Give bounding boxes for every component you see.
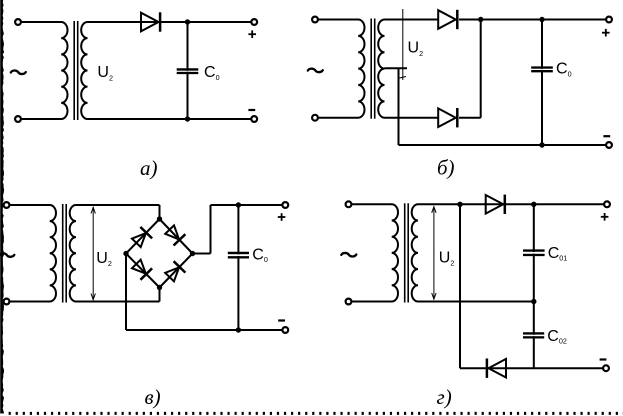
- circuit v: bridge diode VD4 (bottom-right): [164, 261, 186, 283]
- circuit a: wire secondary bottom to output -: [88, 118, 255, 120]
- T(b): core line 1: [370, 19, 372, 119]
- circuit v: node bridge right: [190, 251, 195, 256]
- T(g): primary top lead wire: [351, 203, 392, 205]
- T(b): primary top lead wire: [318, 19, 359, 21]
- T(b): input terminal top: [312, 17, 318, 23]
- T(a): input terminal bottom: [15, 116, 21, 122]
- T(a): AC source symbol ~: [11, 71, 26, 75]
- circuit b: capacitor gap mask: [531, 69, 554, 70]
- circuit g: capacitor C02: [523, 333, 544, 337]
- circuit b: center tap drop wire: [398, 68, 400, 145]
- circuit b: output terminal +: [606, 17, 612, 23]
- circuit g: capacitor C01 wire: [533, 204, 535, 301]
- circuit v: wire riser to bottom vertex: [159, 288, 161, 302]
- circuit g: output terminal +: [604, 201, 610, 207]
- circuit v: bridge diode VD1 (left-top): [130, 227, 152, 249]
- circuit g: left drop wire (node A to bottom rail): [459, 204, 461, 368]
- circuit a: node top (cap junction): [185, 19, 190, 24]
- circuit b: wire secondary bottom to diode VD2: [385, 117, 440, 119]
- circuit v: wire riser to + rail: [210, 205, 212, 254]
- circuit v: - rail wire: [126, 329, 285, 331]
- T(v): core line 2: [65, 204, 67, 303]
- circuit v: capacitor gap mask: [227, 254, 250, 256]
- circuit g: minus sign: [600, 358, 607, 360]
- T(v): primary winding: [50, 205, 56, 301]
- circuit a: output terminal -: [251, 116, 257, 122]
- T(b): secondary winding: [378, 20, 384, 118]
- circuit b: diode VD2: [438, 108, 456, 127]
- T(a): core line 1: [73, 21, 75, 120]
- circuit g: node A: [457, 202, 462, 207]
- circuit a: capacitor gap mask: [176, 70, 200, 73]
- circuit a: diode VD: [141, 13, 159, 32]
- T(a): primary bottom lead wire: [21, 118, 62, 120]
- T(b): AC source symbol ~: [308, 69, 323, 73]
- circuit g: top rail wire node A to +: [460, 203, 607, 205]
- circuit b: wire VD1 to + rail: [459, 19, 609, 21]
- circuit a: top rail wire: [88, 21, 255, 23]
- svg-text:б): б): [437, 156, 455, 180]
- circuit v: bridge edge top-right: [160, 219, 193, 254]
- T(b): primary winding: [358, 20, 364, 118]
- circuit b: output terminal -: [606, 142, 612, 148]
- circuit v: node bridge bottom: [157, 285, 162, 290]
- circuit g: plus sign: [601, 216, 609, 218]
- circuit b: node cap bottom: [539, 142, 544, 147]
- T(a): primary top lead wire: [21, 21, 62, 23]
- circuit v: output terminal -: [282, 327, 288, 333]
- svg-text:г): г): [437, 385, 452, 409]
- circuit v: bridge diode VD3 (left-bottom): [130, 258, 152, 280]
- circuit v: wire left vertex drop: [125, 254, 127, 331]
- circuit g: capacitor C02 gap mask: [523, 335, 546, 336]
- circuit b: capacitor wire vertical: [541, 20, 543, 146]
- circuit g: capacitor C02 wire: [533, 302, 535, 369]
- circuit v: bridge edge bottom-right: [160, 254, 193, 288]
- circuit v: wire drop to bridge top vertex: [159, 205, 161, 219]
- circuit g: node B: [531, 202, 536, 207]
- circuit a: capacitor C0: [177, 70, 199, 73]
- circuit v: output terminal +: [282, 202, 288, 208]
- T(v): AC source symbol ~: [0, 253, 14, 257]
- circuit v: capacitor C0: [228, 253, 249, 257]
- circuit b: plus sign: [602, 32, 610, 34]
- T(a): input terminal top: [15, 19, 21, 25]
- T(a): secondary winding: [81, 22, 87, 119]
- circuit g: capacitor C01: [523, 251, 545, 255]
- T(v): secondary winding: [70, 205, 76, 301]
- T(v): input terminal bottom: [4, 299, 10, 305]
- circuit v: U2 dimension line: [92, 207, 94, 300]
- circuit v: + rail wire: [211, 204, 286, 206]
- circuit a: capacitor wire vertical: [187, 22, 189, 119]
- circuit v: wire secondary bottom: [76, 301, 160, 303]
- circuit b: diode VD1: [438, 10, 456, 29]
- T(a): core line 2: [77, 21, 79, 120]
- decorative left torn-edge border: [0, 0, 4, 414]
- circuit a: plus sign: [248, 33, 256, 35]
- T(g): secondary winding: [412, 204, 418, 301]
- circuit a: node bottom: [185, 116, 190, 121]
- circuit v: node bridge left: [123, 251, 128, 256]
- circuit v: node cap top: [236, 202, 241, 207]
- circuit g: bottom rail wire: [460, 367, 606, 369]
- circuit b: wire VD2 to riser: [459, 117, 481, 119]
- circuit v: wire right vertex out: [193, 253, 211, 255]
- circuit b: minus sign: [603, 135, 610, 137]
- T(g): input terminal bottom: [346, 299, 352, 305]
- svg-text:а): а): [140, 156, 158, 180]
- circuit b: U2 dimension line: [402, 9, 404, 80]
- decorative bottom dotted rule: [9, 412, 623, 415]
- T(g): primary bottom lead wire: [351, 301, 392, 303]
- circuit b: ground rail wire: [399, 144, 610, 146]
- circuit b: wire secondary top to diode VD1: [385, 19, 440, 21]
- T(g): core line 2: [407, 203, 409, 302]
- circuit b: U2 dimension tick: [400, 77, 407, 79]
- T(v): input terminal top: [4, 202, 10, 208]
- circuit v: bridge edge left-top: [126, 219, 160, 254]
- circuit g: node M: [531, 299, 536, 304]
- circuit g: capacitor C01 gap mask: [522, 252, 545, 254]
- circuit g: diode VD2 (pointing left): [489, 359, 507, 378]
- T(b): core line 2: [374, 19, 376, 119]
- circuit g: middle rail wire (secondary bottom): [418, 301, 534, 303]
- T(v): primary top lead wire: [9, 204, 50, 206]
- circuit v: capacitor wire vertical: [237, 205, 239, 330]
- T(a): primary winding: [61, 22, 67, 119]
- T(v): primary bottom lead wire: [9, 301, 50, 303]
- circuit v: wire secondary top to bridge: [76, 204, 160, 206]
- T(g): primary winding: [392, 204, 398, 301]
- circuit g: output terminal -: [603, 365, 609, 371]
- circuit a: output terminal +: [251, 19, 257, 25]
- circuit v: bridge diode VD2 (top-right): [164, 224, 186, 246]
- circuit v: node bridge top: [157, 216, 162, 221]
- T(b): primary bottom lead wire: [318, 117, 359, 119]
- circuit b: center tap stub: [385, 67, 408, 69]
- T(g): input terminal top: [346, 201, 352, 207]
- circuit b: node cap top: [539, 17, 544, 22]
- circuit v: plus sign: [278, 216, 286, 218]
- T(g): AC source symbol ~: [341, 253, 356, 257]
- circuit b: riser wire to + rail: [480, 20, 482, 118]
- T(b): input terminal bottom: [312, 115, 318, 121]
- circuit g: U2 dimension line: [433, 206, 435, 299]
- circuit v: minus sign: [278, 319, 285, 321]
- circuit v: node cap bottom: [236, 327, 241, 332]
- circuit b: node diode join: [478, 17, 483, 22]
- circuit g: diode VD1: [486, 195, 504, 214]
- circuit a: minus sign: [248, 109, 255, 111]
- circuit g: wire secondary top to node A: [418, 203, 460, 205]
- circuit b: capacitor C0: [531, 68, 553, 72]
- T(v): core line 1: [62, 204, 64, 303]
- T(g): core line 1: [404, 203, 406, 302]
- circuit v: bridge edge left-bottom: [126, 254, 160, 288]
- svg-text:в): в): [145, 385, 161, 409]
